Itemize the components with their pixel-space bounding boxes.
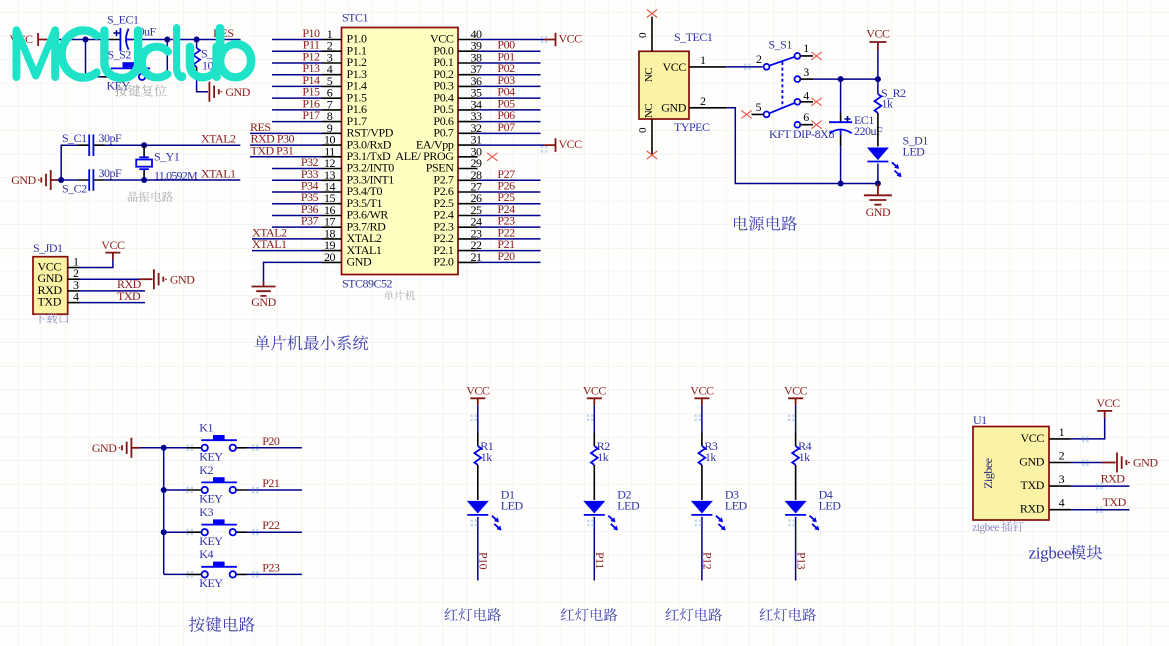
- wire XTAL1: [105, 177, 241, 183]
- svg-text:VCC: VCC: [1021, 431, 1045, 445]
- svg-text:1k: 1k: [705, 450, 717, 464]
- svg-text:GND: GND: [866, 205, 891, 219]
- svg-text:STC1: STC1: [342, 11, 369, 25]
- svg-text:TXD: TXD: [38, 295, 62, 309]
- capacitor S_EC1 10uF: [107, 13, 157, 52]
- ground (reset): [209, 82, 250, 102]
- resistor R4 1k: [792, 433, 811, 501]
- key bus wire: [161, 445, 167, 575]
- svg-text:P21: P21: [262, 476, 280, 490]
- wire: [144, 39, 241, 41]
- svg-text:GND: GND: [11, 173, 36, 187]
- pin 2 wire (GND net): [689, 94, 878, 184]
- svg-text:XTAL1: XTAL1: [252, 237, 287, 251]
- svg-text:S_S2: S_S2: [108, 47, 132, 61]
- power VCC (led 2): [583, 384, 607, 433]
- wire P11: [593, 517, 607, 581]
- svg-text:VCC: VCC: [663, 60, 687, 74]
- svg-text:GND: GND: [92, 441, 117, 455]
- wire VCC (pin40): [478, 31, 583, 46]
- LED D4: [785, 488, 842, 531]
- wire GND pin2: [80, 278, 153, 280]
- svg-text:P12: P12: [701, 552, 715, 570]
- no-ERC marker pin30: [487, 153, 497, 161]
- svg-text:P13: P13: [794, 552, 808, 570]
- wire XTAL1 (pin19): [252, 237, 322, 251]
- wires P27-P20: [478, 167, 541, 263]
- ground (keys): [92, 438, 164, 458]
- net label XTAL2: [201, 132, 236, 146]
- svg-text:KFT DIP-8X8: KFT DIP-8X8: [769, 127, 834, 141]
- switch K4 KEY: [164, 547, 247, 590]
- label 按键复位: [115, 84, 167, 96]
- svg-text:1k: 1k: [799, 450, 811, 464]
- svg-text:NC: NC: [643, 68, 655, 82]
- svg-text:3: 3: [1059, 472, 1065, 486]
- svg-text:2: 2: [756, 52, 762, 66]
- svg-text:S_S1: S_S1: [769, 38, 793, 52]
- svg-text:P2.0: P2.0: [433, 255, 453, 269]
- svg-text:GND: GND: [251, 295, 276, 309]
- label 红灯电路: [666, 608, 722, 621]
- svg-text:P07: P07: [497, 120, 515, 134]
- node junction: [83, 37, 200, 43]
- svg-text:RXD: RXD: [1101, 472, 1126, 486]
- svg-text:LED: LED: [617, 499, 640, 513]
- svg-text:U1: U1: [973, 413, 987, 427]
- wires P10-P17: [272, 26, 322, 122]
- svg-text:2: 2: [700, 94, 706, 108]
- LED S_D1: [867, 134, 928, 187]
- label 按键电路: [189, 616, 255, 631]
- pin 1 wire to switch: [689, 53, 763, 67]
- svg-text:TXD P31: TXD P31: [251, 143, 294, 157]
- svg-text:1: 1: [700, 53, 706, 67]
- connector S_TEC1 TYPEC: [639, 30, 713, 134]
- label STC89C52: [342, 277, 393, 291]
- label 单片机最小系统: [255, 335, 369, 350]
- net label XTAL1: [201, 166, 236, 180]
- svg-text:GND: GND: [661, 101, 687, 115]
- svg-text:KEY: KEY: [199, 492, 223, 506]
- svg-text:GND: GND: [1019, 455, 1045, 469]
- svg-text:K1: K1: [199, 421, 213, 435]
- label zigbee模块: [1029, 544, 1103, 563]
- ground (MCU): [251, 287, 276, 310]
- svg-text:6: 6: [803, 110, 809, 124]
- svg-text:GND: GND: [225, 85, 250, 99]
- crystal S_Y1 11.0592M: [136, 145, 198, 182]
- switch K3 KEY: [164, 505, 247, 548]
- pin names and numbers (right): [395, 27, 482, 269]
- wire pin3 to VCC rail: [800, 76, 881, 82]
- no-ERC markers on S_S1: [741, 52, 821, 129]
- pin 0 (bottom) with no-ERC: [637, 119, 657, 159]
- svg-text:KEY: KEY: [199, 534, 223, 548]
- wire XTAL2: [105, 142, 241, 148]
- svg-text:S_C1: S_C1: [62, 131, 87, 145]
- svg-text:K2: K2: [199, 463, 213, 477]
- power VCC (led 4): [784, 384, 808, 433]
- wire RXD P30 (pin10): [250, 132, 322, 146]
- power VCC (led 3): [690, 384, 714, 433]
- power VCC (zigbee): [1071, 396, 1120, 439]
- svg-text:LED: LED: [725, 499, 748, 513]
- resistor R1 1k: [474, 433, 493, 501]
- label 下载口: [35, 313, 68, 324]
- svg-text:VCC: VCC: [866, 27, 890, 41]
- svg-text:GND: GND: [170, 272, 195, 286]
- svg-text:zigbee: zigbee: [972, 522, 999, 534]
- wire: [53, 39, 110, 41]
- wire TXD pin4: [1071, 495, 1130, 510]
- wire: [57, 145, 78, 183]
- label 晶振电路: [128, 191, 173, 202]
- svg-text:zigbee: zigbee: [1029, 544, 1072, 563]
- svg-text:P10: P10: [477, 552, 491, 570]
- wire GND (pin20): [264, 262, 323, 286]
- svg-text:Zigbee: Zigbee: [981, 458, 995, 488]
- wire GND pin2 + ground (zigbee): [1071, 453, 1158, 473]
- LED D3: [691, 488, 748, 531]
- power VCC (supply): [866, 27, 890, 80]
- svg-text:P22: P22: [262, 518, 280, 532]
- svg-text:VCC: VCC: [784, 384, 808, 398]
- svg-text:P20: P20: [262, 434, 280, 448]
- LED D1: [467, 488, 524, 531]
- pin names and numbers (left): [322, 27, 394, 269]
- label 单片机: [384, 291, 415, 301]
- svg-text:VCC: VCC: [101, 238, 125, 252]
- label 红灯电路: [445, 608, 501, 621]
- svg-text:K4: K4: [199, 547, 213, 561]
- pin 0 (top) with no-ERC: [637, 10, 657, 52]
- capacitor S_C1 30pF: [62, 131, 122, 156]
- svg-text:KEY: KEY: [199, 449, 223, 463]
- svg-text:1k: 1k: [481, 450, 493, 464]
- svg-text:TXD: TXD: [1103, 495, 1127, 509]
- svg-text:NC: NC: [643, 104, 655, 118]
- svg-text:GND: GND: [1133, 456, 1158, 470]
- svg-text:VCC: VCC: [559, 31, 583, 45]
- svg-text:S_C2: S_C2: [62, 182, 87, 196]
- wire XTAL2 (pin18): [252, 225, 322, 239]
- svg-text:LED: LED: [903, 145, 926, 159]
- wire P22: [247, 518, 302, 532]
- resistor R3 1k: [699, 433, 718, 501]
- svg-text:5: 5: [756, 100, 762, 114]
- svg-text:RXD: RXD: [1020, 502, 1045, 516]
- IC STC1 designator: [342, 11, 369, 25]
- wire P21: [247, 476, 302, 490]
- capacitor S_C2 30pF: [61, 166, 122, 196]
- svg-text:1: 1: [1059, 425, 1065, 439]
- svg-text:VCC: VCC: [1096, 396, 1120, 410]
- resistor S_R1 10k: [193, 40, 226, 92]
- svg-text:TXD: TXD: [117, 289, 141, 303]
- svg-text:TXD: TXD: [1021, 478, 1045, 492]
- switch S_S2 KEY: [101, 47, 150, 92]
- wire VCC (pin31 EA): [478, 137, 583, 152]
- wire TXD P31 (pin11): [250, 143, 322, 157]
- svg-text:4: 4: [73, 290, 79, 304]
- svg-text:P11: P11: [593, 552, 607, 569]
- svg-text:KEY: KEY: [199, 576, 223, 590]
- svg-text:VCC: VCC: [559, 137, 583, 151]
- wire TXD: [80, 289, 146, 303]
- svg-text:VCC: VCC: [583, 384, 607, 398]
- svg-text:P23: P23: [262, 560, 280, 574]
- switch S_S1 KFT DIP-8X8: [752, 38, 835, 142]
- label 红灯电路: [561, 608, 617, 621]
- svg-text:P20: P20: [497, 249, 515, 263]
- svg-text:1: 1: [803, 41, 809, 55]
- svg-text:3: 3: [803, 65, 809, 79]
- wire P23: [247, 560, 302, 574]
- svg-text:1k: 1k: [597, 450, 609, 464]
- ground (download): [154, 269, 195, 289]
- wire (switch branch): [86, 40, 168, 77]
- capacitor EC1 220uF: [829, 79, 883, 186]
- connector S_JD1: [33, 241, 80, 314]
- label 电源电路: [734, 216, 797, 231]
- svg-text:30pF: 30pF: [99, 131, 123, 145]
- switch K2 KEY: [164, 463, 247, 506]
- wire RXD pin3: [1071, 472, 1130, 487]
- svg-text:LED: LED: [819, 499, 842, 513]
- svg-text:P17: P17: [302, 108, 320, 122]
- svg-text:30pF: 30pF: [99, 166, 123, 180]
- switch K1 KEY: [164, 421, 247, 464]
- svg-text:S_TEC1: S_TEC1: [674, 30, 713, 44]
- wires P00-P07: [478, 38, 541, 134]
- resistor R2 1k: [591, 433, 610, 501]
- svg-text:20: 20: [324, 250, 336, 264]
- compile marker dots: [187, 36, 1103, 577]
- svg-text:XTAL1: XTAL1: [201, 166, 236, 180]
- wire RXD: [80, 277, 146, 291]
- logo MCUclub: [14, 25, 254, 80]
- wire P13: [794, 517, 808, 581]
- svg-text:P37: P37: [301, 214, 319, 228]
- svg-text:4: 4: [803, 89, 809, 103]
- wire P20: [247, 434, 302, 448]
- svg-text:LED: LED: [501, 499, 524, 513]
- net label RES: [213, 26, 234, 40]
- svg-text:VCC: VCC: [690, 384, 714, 398]
- IC STC1 STC89C52 body: [342, 28, 459, 275]
- wire P12: [701, 517, 715, 581]
- svg-text:S_JD1: S_JD1: [33, 241, 63, 255]
- resistor S_R2 1k: [875, 79, 907, 146]
- svg-text:2: 2: [1059, 449, 1065, 463]
- power VCC (download): [80, 238, 125, 268]
- svg-text:K3: K3: [199, 505, 213, 519]
- ground (crystal): [11, 170, 57, 190]
- label zigbee插钉: [972, 521, 1024, 534]
- power VCC (reset): [9, 32, 53, 46]
- module U1 zigbee: [973, 413, 1071, 520]
- label 红灯电路: [760, 608, 816, 621]
- wire P10: [477, 517, 491, 581]
- ground (supply): [864, 184, 892, 219]
- svg-text:TYPEC: TYPEC: [674, 120, 710, 134]
- svg-text:XTAL2: XTAL2: [201, 132, 236, 146]
- wire RES (pin9): [250, 120, 322, 134]
- svg-text:4: 4: [1059, 496, 1065, 510]
- svg-text:S_Y1: S_Y1: [154, 150, 180, 164]
- svg-text:VCC: VCC: [466, 384, 490, 398]
- svg-text:GND: GND: [347, 255, 373, 269]
- wires P32-P37: [272, 155, 322, 228]
- LED D2: [583, 488, 640, 531]
- svg-text:STC89C52: STC89C52: [342, 277, 393, 291]
- svg-text:1k: 1k: [882, 97, 894, 111]
- power VCC (led 1): [466, 384, 490, 433]
